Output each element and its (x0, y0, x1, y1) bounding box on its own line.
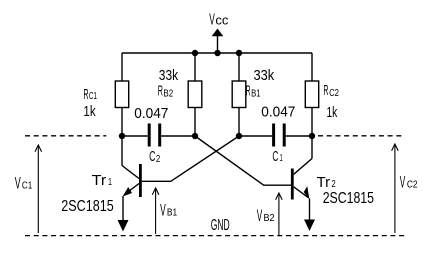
node dot top Vcc (214, 50, 220, 56)
svg-text:1: 1 (280, 153, 283, 164)
measurement arrow VC2 (392, 144, 399, 233)
wire Tr2 collector diagonal (294, 159, 312, 175)
node dot RB2 bottom (192, 133, 198, 139)
transistor Q1 emitter ground arrow (118, 220, 128, 231)
svg-text:GND: GND (211, 217, 230, 234)
transistor Q1 emitter arrowhead (123, 188, 131, 196)
svg-text:0.047: 0.047 (134, 106, 168, 122)
svg-text:C2: C2 (329, 88, 339, 99)
dashed reference line upper left (25, 135, 106, 137)
measurement arrow VB2 (276, 193, 283, 235)
Vcc supply arrow (212, 29, 224, 54)
resistor Rc2 (305, 81, 318, 108)
capacitor C1 plates (274, 124, 285, 147)
svg-text:C: C (272, 148, 278, 165)
measurement arrow VB1 (152, 188, 159, 234)
wire node VC1 to C2 left plate (122, 135, 148, 137)
label VC2 (400, 172, 418, 191)
svg-text:1k: 1k (83, 104, 96, 120)
node dot RB1 bottom (236, 133, 242, 139)
label Vcc (209, 12, 229, 29)
svg-text:V: V (257, 206, 263, 225)
svg-text:Tr: Tr (317, 174, 330, 191)
svg-text:R: R (83, 86, 88, 103)
dashed reference line upper right (318, 135, 403, 137)
capacitor C2 plates (149, 124, 160, 147)
resistor Rc1 (115, 81, 128, 108)
wire Tr1 emitter vertical to ground arrow (122, 196, 124, 221)
label VB1 (160, 201, 177, 220)
measurement arrow VC1 (35, 145, 42, 233)
wire Rc2 bottom lead (311, 108, 313, 137)
svg-text:V: V (15, 173, 21, 192)
svg-text:R: R (158, 83, 163, 100)
wire Tr2 emitter diagonal (294, 187, 308, 198)
node dot top RB1 (236, 50, 242, 56)
label Tr2 (317, 174, 336, 191)
wire Tr1 collector diagonal (122, 166, 139, 179)
svg-text:B2: B2 (264, 213, 275, 224)
svg-text:cc: cc (215, 13, 229, 28)
label Rc2 (323, 82, 339, 99)
label VC1 (15, 173, 33, 192)
wire top rail Vcc (122, 52, 312, 54)
svg-text:2SC1815: 2SC1815 (61, 198, 114, 215)
svg-text:B1: B1 (251, 89, 261, 100)
transistor Q2 emitter arrowhead (304, 187, 309, 199)
label RB2 (158, 83, 174, 100)
wire Rc2 top lead (311, 53, 313, 81)
label Tr1 (92, 172, 113, 189)
label C2 (149, 148, 161, 165)
label VB2 (257, 206, 275, 225)
transistor Q2 emitter ground arrow (305, 220, 315, 231)
svg-text:C: C (149, 148, 155, 165)
wire Tr2 base diagonal from RB2 node (195, 136, 291, 185)
resistor RB1 (232, 81, 246, 108)
svg-text:2: 2 (156, 154, 161, 165)
node dot VC2 (309, 133, 315, 139)
node dot top RB2 (192, 50, 198, 56)
svg-text:C2: C2 (407, 179, 418, 190)
svg-text:R: R (323, 82, 328, 99)
wire Rc1 bottom lead (121, 108, 123, 137)
transistor Q1 base bar (139, 164, 142, 197)
svg-text:V: V (209, 12, 215, 29)
svg-text:B1: B1 (167, 208, 178, 219)
svg-text:0.047: 0.047 (261, 104, 295, 120)
svg-text:2SC1815: 2SC1815 (323, 190, 375, 207)
node dot VC1 (119, 133, 125, 139)
svg-text:R: R (246, 83, 251, 100)
wire Tr1 base diagonal from RB1 node (142, 136, 239, 181)
label RB1 (246, 83, 261, 100)
wire node RB1 to C1 left plate (239, 135, 272, 137)
wire Tr1 emitter diagonal (125, 184, 140, 195)
svg-text:2: 2 (332, 179, 337, 190)
transistor Q2 base bar (291, 169, 294, 200)
svg-text:V: V (400, 172, 406, 191)
svg-text:V: V (160, 201, 166, 220)
svg-text:1k: 1k (327, 105, 338, 121)
label C1 (272, 148, 282, 165)
dashed ground reference line (25, 235, 405, 237)
wire RB2 bottom lead (194, 108, 196, 137)
wire Tr1 collector vertical (121, 136, 123, 166)
svg-text:C1: C1 (89, 91, 97, 102)
svg-text:33k: 33k (254, 68, 275, 84)
wire C1 right plate to node VC2 (286, 135, 312, 137)
wire RB1 top lead (238, 53, 240, 81)
wire Tr2 emitter vertical to ground arrow (309, 199, 311, 221)
wire RB2 top lead (194, 53, 196, 81)
label Rc1 (83, 86, 97, 103)
svg-text:B2: B2 (163, 89, 173, 100)
wire C2 right plate to node B (161, 135, 195, 137)
wire RB1 bottom lead (238, 108, 240, 137)
wire Rc1 top lead (121, 53, 123, 81)
wire Tr2 collector vertical (311, 136, 313, 159)
svg-text:C1: C1 (22, 180, 33, 191)
svg-text:1: 1 (108, 177, 112, 188)
resistor RB2 (188, 81, 202, 108)
svg-text:Tr: Tr (92, 172, 107, 189)
